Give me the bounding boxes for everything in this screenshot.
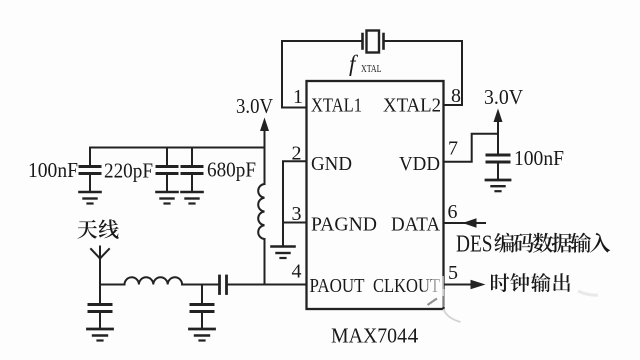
svg-text:4: 4 bbox=[292, 261, 302, 283]
wire L2 to C6 bbox=[182, 284, 218, 286]
inductor L2 match bbox=[125, 277, 183, 284]
svg-text:680pF: 680pF bbox=[207, 158, 256, 182]
label 编码数据输入 DATA input description (CJK) bbox=[494, 233, 610, 253]
capacitor C3 680pF bbox=[182, 148, 202, 192]
svg-text:4: 4 bbox=[408, 324, 419, 348]
svg-text:f: f bbox=[349, 51, 359, 76]
ground for pins 2,3 bbox=[272, 247, 295, 259]
wire choke feed bbox=[264, 148, 266, 185]
svg-text:GND: GND bbox=[311, 153, 352, 175]
wire pin5 CLKOUT output with arrow bbox=[444, 280, 486, 289]
capacitor C4 antenna shunt bbox=[89, 285, 111, 329]
scan artifact: fade on box right edge bottom bbox=[442, 289, 447, 307]
svg-text:VDD: VDD bbox=[399, 153, 440, 175]
ground for C1 bbox=[80, 192, 101, 204]
svg-text:XTAL1: XTAL1 bbox=[311, 95, 362, 117]
wire pin6 DATA input with arrow bbox=[444, 218, 485, 227]
svg-text:8: 8 bbox=[451, 85, 461, 107]
wire pin2 GND stub bbox=[283, 161, 306, 222]
svg-text:PAOUT: PAOUT bbox=[310, 275, 365, 297]
ground for C5 bbox=[190, 329, 215, 341]
svg-text:220pF: 220pF bbox=[104, 159, 153, 183]
label MAX7044 bbox=[331, 324, 419, 348]
wire antenna node to L2 bbox=[100, 284, 125, 286]
scan artifact: faint smudge right of clock label bbox=[578, 291, 598, 295]
svg-text:XTAL: XTAL bbox=[361, 64, 382, 75]
capacitor C5 shunt bbox=[191, 285, 213, 329]
scan artifact: fade over CLKOUT tail bbox=[423, 276, 444, 296]
svg-text:DES: DES bbox=[456, 232, 493, 258]
scan artifact: stronger fade on T bbox=[432, 276, 444, 296]
wire pin3 PAGND stub bbox=[283, 223, 306, 246]
IC U1 MAX7044 box bbox=[307, 81, 444, 309]
wire crystal loop left (pin1 to XTAL top) bbox=[282, 41, 362, 108]
crystal Y1 fXTAL bbox=[363, 31, 384, 53]
label 天线 antenna (CJK) bbox=[77, 219, 118, 238]
ground for C2 bbox=[157, 192, 178, 204]
svg-text:6: 6 bbox=[448, 201, 458, 223]
svg-text:1: 1 bbox=[293, 86, 303, 108]
scan artifact: gray tick inside box corner bbox=[428, 299, 438, 306]
ground for C7 bbox=[486, 180, 510, 191]
node 3.0V supply arrow left bbox=[260, 118, 269, 148]
wire crystal loop right (XTAL to pin8) bbox=[384, 41, 462, 105]
capacitor C1 100nF bbox=[80, 148, 100, 192]
svg-text:XTAL2: XTAL2 bbox=[383, 95, 441, 117]
capacitor C6 series coupling bbox=[220, 276, 227, 294]
svg-text:100nF: 100nF bbox=[514, 146, 564, 170]
label fXTAL bbox=[349, 51, 382, 76]
svg-text:MAX704: MAX704 bbox=[331, 324, 407, 348]
inductor L1 RF choke bbox=[258, 184, 264, 239]
wire C6 to pin4 PAOUT bbox=[228, 284, 307, 286]
svg-text:2: 2 bbox=[292, 143, 302, 165]
label 时钟输出 clock output (CJK) bbox=[491, 273, 570, 292]
node 3.0V supply arrow right bbox=[494, 109, 503, 134]
svg-text:7: 7 bbox=[448, 138, 458, 160]
scan artifact: gray hook below box corner bbox=[444, 309, 461, 322]
wire choke to PAOUT node bbox=[264, 239, 266, 285]
svg-text:3.0V: 3.0V bbox=[484, 85, 523, 109]
svg-text:5: 5 bbox=[448, 262, 458, 284]
antenna ANT1 bbox=[91, 247, 109, 285]
ground for C3 bbox=[182, 192, 203, 204]
ground for C4 bbox=[88, 329, 113, 341]
svg-text:100nF: 100nF bbox=[28, 158, 78, 182]
capacitor C2 220pF bbox=[157, 148, 177, 192]
svg-text:PAGND: PAGND bbox=[311, 214, 377, 236]
wire pin7 VDD jog bbox=[444, 134, 498, 162]
capacitor C7 100nF decoupling bbox=[487, 134, 509, 179]
svg-text:3.0V: 3.0V bbox=[236, 94, 273, 118]
svg-text:DATA: DATA bbox=[391, 214, 441, 236]
wire decoupling rail bbox=[90, 147, 265, 149]
svg-text:3: 3 bbox=[292, 203, 302, 225]
